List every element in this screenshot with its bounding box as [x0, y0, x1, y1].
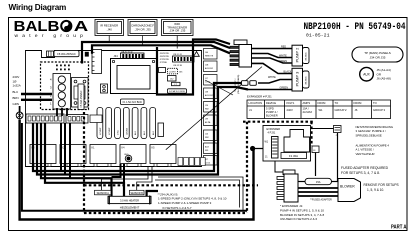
svg-text:GREEN: GREEN [280, 87, 289, 90]
svg-text:REMOVE FOR SETUPS: REMOVE FOR SETUPS [364, 183, 399, 187]
svg-text:EXPANDER # PJ31: EXPANDER # PJ31 [247, 95, 272, 99]
svg-text:AUX: AUX [143, 130, 146, 135]
svg-text:GRN: GRN [13, 102, 19, 106]
svg-text:F1 1.5A 3LO BLW: F1 1.5A 3LO BLW [123, 101, 143, 104]
svg-text:J26: J26 [205, 105, 208, 107]
svg-text:15A: 15A [316, 180, 321, 184]
svg-text:(8A MAX): (8A MAX) [305, 76, 308, 84]
svg-text:J17: J17 [205, 78, 208, 80]
svg-text:J2A 3O 31 3Z: J2A 3O 31 3Z [121, 50, 133, 53]
svg-text:FROM: FROM [354, 101, 363, 105]
svg-text:J46: J46 [205, 52, 208, 54]
svg-text:BLACK: BLACK [284, 71, 292, 74]
svg-text:PUMP 3: PUMP 3 [295, 71, 300, 87]
svg-text:TO GROUP J: TO GROUP J [235, 79, 237, 92]
svg-text:VOLT1: VOLT1 [286, 101, 295, 105]
svg-text:UNUSED IN SETUPS 2 & 6: UNUSED IN SETUPS 2 & 6 [280, 217, 318, 221]
svg-text:F1 30A: F1 30A [289, 154, 298, 158]
svg-text:J99: J99 [205, 119, 208, 121]
svg-text:SENSOR B: SENSOR B [131, 192, 144, 195]
svg-text:J27PNE: J27PNE [160, 62, 168, 64]
svg-text:FOR SETUPS 3, 4, 7 & 8.: FOR SETUPS 3, 4, 7 & 8. [341, 171, 380, 175]
svg-text:TO: TO [373, 101, 377, 105]
svg-text:BLU: BLU [13, 90, 19, 94]
svg-text:RED: RED [281, 46, 286, 49]
svg-text:AUX: AUX [134, 130, 137, 135]
svg-text:SPRUDELGEBLASE: SPRUDELGEBLASE [356, 133, 382, 137]
svg-text:J38: J38 [205, 92, 208, 94]
svg-text:GROUP 2: GROUP 2 [335, 108, 348, 112]
svg-text:240V: 240V [287, 108, 293, 112]
svg-text:J26: J26 [205, 134, 208, 136]
svg-text:DEVICE: DEVICE [266, 101, 276, 105]
svg-text:AUX FB2: AUX FB2 [205, 94, 213, 97]
svg-text:**FUSED ADAPTER: **FUSED ADAPTER [310, 198, 332, 201]
svg-text:(ON MAIN BOARD): (ON MAIN BOARD) [237, 75, 240, 94]
svg-text:AUX: AUX [152, 130, 155, 135]
svg-text:F4 3A 3LO BLW: F4 3A 3LO BLW [169, 90, 186, 93]
svg-text:TP (MAIN) PANELS: TP (MAIN) PANELS [364, 51, 391, 55]
svg-text:1, 5, 9 & 10.: 1, 5, 9 & 10. [367, 188, 384, 192]
svg-text:NBP2100H - PN 56749-04: NBP2100H - PN 56749-04 [304, 21, 406, 33]
svg-text:LIGHT: LIGHT [169, 71, 176, 73]
svg-text:RB2: RB2 [205, 137, 209, 139]
svg-text:AUX: AUX [363, 73, 370, 77]
svg-text:PART A: PART A [391, 224, 407, 230]
svg-text:RADIATEUR: RADIATEUR [120, 210, 136, 214]
svg-text:RB2: RB2 [205, 109, 209, 111]
svg-text:J2B 3O 31: J2B 3O 31 [173, 54, 182, 56]
svg-text:J26PNTRL: J26PNTRL [160, 56, 171, 58]
svg-text:TO: TO [335, 101, 339, 105]
svg-text:water group: water group [15, 33, 88, 39]
svg-text:AUX FB2: AUX FB2 [205, 67, 213, 70]
svg-text:J27PNTRL: J27PNTRL [160, 59, 171, 61]
svg-text:FUSED ADAPTER REQUIRED: FUSED ADAPTER REQUIRED [341, 166, 389, 170]
svg-text:REMOTE: REMOTE [205, 56, 214, 58]
svg-text:IN SETUPS 1-3 & 5-7: IN SETUPS 1-3 & 5-7 [163, 206, 192, 210]
svg-text:J34 OR J35: J34 OR J35 [370, 55, 386, 59]
svg-text:COOL: COOL [205, 163, 210, 165]
svg-text:(8A MAX): (8A MAX) [305, 52, 308, 60]
svg-text:BLOWER: BLOWER [266, 113, 278, 117]
svg-text:AMPS: AMPS [303, 101, 311, 105]
svg-text:1-SPEED PUMP 2 & 1-SPEED PUMP: 1-SPEED PUMP 2 & 1-SPEED PUMP 3 [158, 201, 212, 205]
svg-text:J6 (A5-A8): J6 (A5-A8) [377, 77, 391, 81]
svg-text:PUMP 2: PUMP 2 [295, 47, 300, 63]
svg-text:J34: J34 [114, 54, 119, 58]
svg-text:F8 30A 250VAC: F8 30A 250VAC [57, 52, 76, 56]
svg-text:BALB: BALB [14, 19, 60, 35]
svg-text:J2B 3Z 3B: J2B 3Z 3B [173, 65, 183, 67]
svg-text:GND: GND [124, 154, 129, 156]
svg-text:Wiring Diagram: Wiring Diagram [9, 3, 67, 12]
svg-text:J26PNTRL: J26PNTRL [160, 53, 171, 55]
svg-text:1x32A: 1x32A [13, 84, 21, 88]
svg-text:BRN: BRN [13, 96, 19, 100]
svg-text:A: A [74, 19, 89, 35]
svg-text:J1: J1 [249, 108, 252, 112]
svg-text:J6: J6 [355, 108, 358, 112]
svg-text:.J34 OR .J35: .J34 OR .J35 [134, 28, 151, 32]
svg-text:F5 30A 250VAC: F5 30A 250VAC [80, 90, 83, 107]
svg-text:L PUMP: L PUMP [109, 127, 111, 135]
svg-text:LOCATION: LOCATION [249, 101, 263, 105]
svg-text:GROUP 3: GROUP 3 [373, 108, 386, 112]
svg-text:.J34 OR .J35: .J34 OR .J35 [169, 29, 186, 33]
svg-text:GREEN: GREEN [279, 60, 288, 63]
svg-text:A8 PA: A8 PA [205, 121, 211, 124]
svg-text:SENSOR A: SENSOR A [97, 192, 110, 195]
svg-text:WHITE: WHITE [268, 76, 276, 79]
svg-text:.J40: .J40 [107, 28, 113, 32]
svg-text:L PUMP: L PUMP [100, 127, 102, 135]
svg-text:W1: W1 [319, 108, 324, 112]
svg-text:OZONE: OZONE [126, 127, 128, 135]
svg-text:FB1: FB1 [205, 150, 208, 152]
svg-text:3.0 kW HEATER: 3.0 kW HEATER [120, 198, 139, 202]
svg-text:4A MAX: 4A MAX [303, 110, 313, 114]
svg-text:BLOWER: BLOWER [340, 184, 355, 188]
svg-text:01-05-21: 01-05-21 [306, 33, 330, 39]
svg-text:L INC: L INC [118, 129, 120, 135]
svg-text:FROM: FROM [318, 101, 327, 105]
svg-text:WHITE: WHITE [279, 54, 287, 57]
svg-text:VENTILATEUR: VENTILATEUR [356, 152, 375, 156]
svg-text:4 PJ31: 4 PJ31 [268, 131, 276, 134]
